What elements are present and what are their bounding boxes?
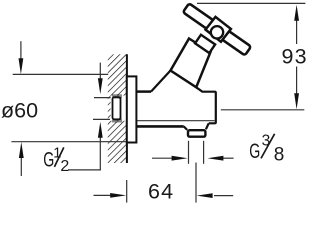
svg-text:64: 64	[148, 179, 174, 203]
svg-text:G: G	[249, 139, 260, 163]
svg-text:ø60: ø60	[1, 98, 38, 122]
svg-text:8: 8	[274, 144, 285, 165]
svg-text:2: 2	[60, 158, 69, 175]
svg-text:93: 93	[282, 45, 308, 69]
svg-text:3: 3	[262, 133, 271, 150]
